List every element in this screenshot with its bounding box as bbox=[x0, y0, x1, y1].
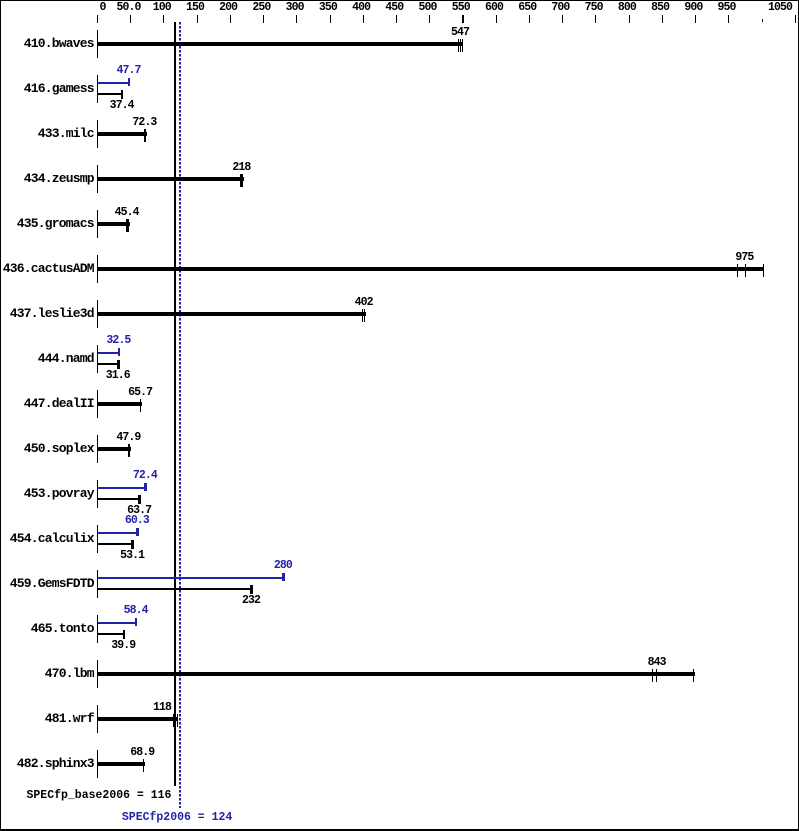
peak median dotted line 124 bbox=[179, 22, 181, 808]
frame border bbox=[0, 0, 799, 1]
row 450.soplex bbox=[0, 442, 94, 455]
row 447.dealII bbox=[0, 397, 94, 410]
row 435.gromacs bbox=[0, 217, 94, 230]
row 459.GemsFDTD bbox=[0, 577, 94, 590]
row 470.lbm bbox=[0, 667, 94, 680]
row 436.cactusADM bbox=[0, 262, 94, 275]
summary bbox=[27, 790, 172, 802]
row 453.povray bbox=[0, 487, 94, 500]
row 416.gamess bbox=[0, 82, 94, 95]
row 410.bwaves bbox=[0, 37, 94, 50]
base median line 116 bbox=[174, 22, 176, 786]
row 481.wrf bbox=[0, 712, 94, 725]
row 437.leslie3d bbox=[0, 307, 94, 320]
row 482.sphinx3 bbox=[0, 757, 94, 770]
row 434.zeusmp bbox=[0, 172, 94, 185]
x axis bbox=[97, 15, 98, 23]
row 465.tonto bbox=[0, 622, 94, 635]
row 454.calculix bbox=[0, 532, 94, 545]
row 444.namd bbox=[0, 352, 94, 365]
row 433.milc bbox=[0, 127, 94, 140]
